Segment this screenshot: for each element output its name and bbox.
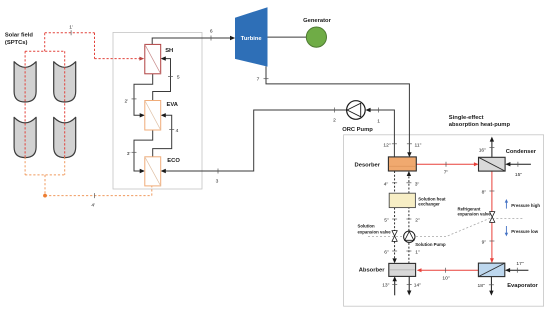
svg-text:Solution heat: Solution heat bbox=[418, 196, 446, 201]
svg-text:Evaporator: Evaporator bbox=[507, 283, 538, 289]
svg-text:Single-effect: Single-effect bbox=[449, 115, 484, 121]
svg-text:2: 2 bbox=[333, 117, 336, 123]
svg-text:4'': 4'' bbox=[384, 182, 389, 188]
svg-text:Generator: Generator bbox=[303, 18, 331, 24]
svg-text:5: 5 bbox=[177, 74, 180, 80]
svg-text:expansion valve: expansion valve bbox=[358, 229, 392, 234]
svg-text:Turbine: Turbine bbox=[241, 36, 263, 42]
svg-text:2': 2' bbox=[124, 99, 128, 105]
svg-text:Desorber: Desorber bbox=[355, 163, 381, 169]
svg-text:5'': 5'' bbox=[384, 218, 389, 224]
svg-text:14'': 14'' bbox=[414, 283, 421, 289]
svg-text:ECO: ECO bbox=[167, 158, 180, 164]
svg-text:Pressure high: Pressure high bbox=[511, 203, 540, 208]
svg-text:7'': 7'' bbox=[444, 170, 449, 176]
svg-text:3'': 3'' bbox=[415, 182, 420, 188]
svg-text:11'': 11'' bbox=[415, 143, 422, 149]
svg-text:6: 6 bbox=[210, 29, 213, 35]
svg-text:Solar field: Solar field bbox=[5, 33, 33, 39]
svg-text:Condenser: Condenser bbox=[506, 149, 537, 155]
svg-text:Pressure low: Pressure low bbox=[511, 229, 538, 234]
svg-text:10'': 10'' bbox=[442, 275, 449, 281]
svg-text:exchanger: exchanger bbox=[418, 202, 440, 207]
svg-text:3': 3' bbox=[127, 151, 131, 157]
svg-text:17'': 17'' bbox=[516, 261, 523, 267]
svg-text:2'': 2'' bbox=[415, 218, 420, 224]
svg-text:Solution Pump: Solution Pump bbox=[415, 242, 446, 247]
svg-text:18'': 18'' bbox=[477, 283, 484, 289]
svg-text:1: 1 bbox=[377, 118, 380, 124]
svg-text:12'': 12'' bbox=[383, 143, 390, 149]
svg-text:9'': 9'' bbox=[482, 239, 487, 245]
svg-text:1': 1' bbox=[69, 24, 73, 30]
svg-text:expansion valve: expansion valve bbox=[458, 212, 492, 217]
svg-text:(SPTCs): (SPTCs) bbox=[5, 40, 28, 46]
svg-text:16'': 16'' bbox=[479, 147, 486, 153]
svg-text:4: 4 bbox=[176, 128, 179, 134]
svg-text:ORC Pump: ORC Pump bbox=[342, 127, 373, 133]
svg-text:3: 3 bbox=[216, 179, 219, 185]
svg-text:SH: SH bbox=[165, 48, 173, 54]
svg-text:15'': 15'' bbox=[515, 172, 522, 178]
svg-text:7: 7 bbox=[257, 77, 260, 83]
svg-text:EVA: EVA bbox=[167, 102, 179, 108]
svg-text:6'': 6'' bbox=[384, 250, 389, 256]
svg-text:Absorber: Absorber bbox=[359, 267, 386, 273]
svg-text:8'': 8'' bbox=[482, 189, 487, 195]
svg-text:4': 4' bbox=[91, 203, 95, 209]
svg-text:13'': 13'' bbox=[382, 283, 389, 289]
svg-text:absorption heat-pump: absorption heat-pump bbox=[449, 122, 511, 128]
svg-text:Solution: Solution bbox=[358, 223, 376, 228]
svg-text:1'': 1'' bbox=[415, 250, 420, 256]
